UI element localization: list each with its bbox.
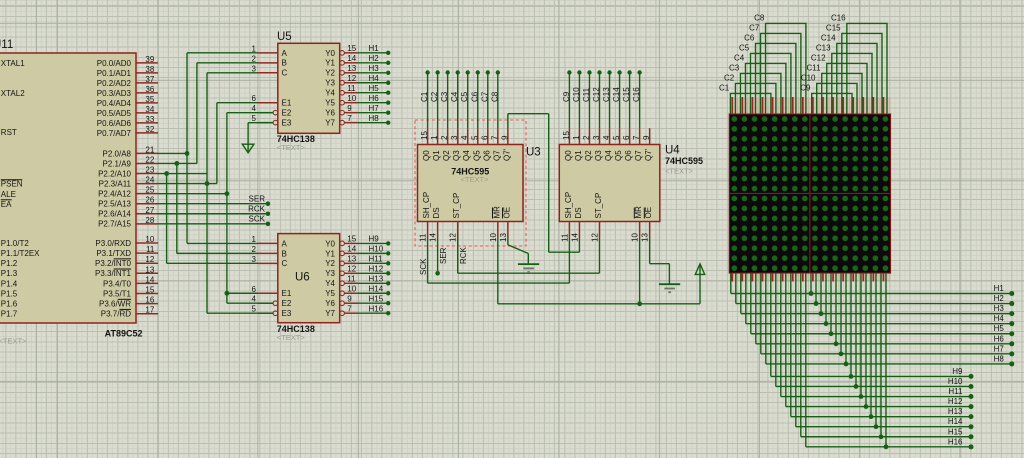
svg-text:15: 15 <box>347 235 356 244</box>
svg-text:A: A <box>282 239 288 248</box>
svg-text:H11: H11 <box>369 255 384 264</box>
U6 output pin Y0 (pin 15) and net H9 wire <box>325 235 390 249</box>
U5 output pin Y7 (pin 7) and net H8 wire <box>325 114 390 128</box>
svg-text:SCK: SCK <box>249 215 266 224</box>
svg-text:C5: C5 <box>739 43 750 52</box>
ground symbol below U4 (bar style) <box>659 284 680 292</box>
svg-text:H16: H16 <box>948 437 963 446</box>
net C15 column wire to matrix <box>826 23 882 114</box>
svg-text:12: 12 <box>145 255 154 264</box>
svg-text:RCK: RCK <box>248 205 266 214</box>
U6 property text <box>277 333 306 342</box>
U3 output pin Q1 (pin 1) top stub <box>430 128 441 161</box>
svg-text:C14: C14 <box>612 87 621 102</box>
net P2.4 wire to U5.E2, U6.E1 and U6.E2 with junctions <box>158 113 273 304</box>
svg-text:28: 28 <box>145 216 154 225</box>
net SCK wire U3.SH_CP to U4.SH_CP with label <box>419 238 570 284</box>
svg-text:15: 15 <box>420 131 429 140</box>
U3 output pin Q0 (pin 15) top stub <box>420 128 431 161</box>
svg-text:U4: U4 <box>665 145 680 157</box>
svg-text:H13: H13 <box>369 275 384 284</box>
svg-text:P1.0/T2: P1.0/T2 <box>1 239 30 248</box>
svg-text:12: 12 <box>347 265 356 274</box>
svg-text:XTAL2: XTAL2 <box>1 89 25 98</box>
svg-text:EA: EA <box>1 200 12 209</box>
svg-text:9: 9 <box>642 135 651 140</box>
U4 input pin SH_CP (pin 11) bottom stub <box>560 192 573 242</box>
U11 left pin name P1.0/T2 <box>1 239 30 248</box>
U11 left pin name ALE <box>1 190 16 199</box>
svg-text:C15: C15 <box>826 23 841 32</box>
U11 left pin name XTAL1 <box>1 59 25 68</box>
U11 value label AT89C52 <box>105 329 143 339</box>
svg-text:P0.5/AD5: P0.5/AD5 <box>97 109 132 118</box>
svg-text:14: 14 <box>145 275 154 284</box>
ground symbol below U5 (arrow style) <box>242 144 254 153</box>
svg-text:34: 34 <box>145 105 154 114</box>
svg-text:Q5: Q5 <box>472 150 481 161</box>
svg-text:U6: U6 <box>295 272 310 284</box>
svg-text:P0.1/AD1: P0.1/AD1 <box>97 69 132 78</box>
svg-text:Y3: Y3 <box>325 269 335 278</box>
U11 pin P2.7/A15 (pin 28) stub <box>98 216 158 229</box>
svg-text:H5: H5 <box>369 84 380 93</box>
net C16 column wire to matrix <box>831 13 887 114</box>
svg-text:Y6: Y6 <box>325 299 335 308</box>
svg-text:37: 37 <box>145 75 154 84</box>
svg-text:11: 11 <box>419 233 428 242</box>
svg-text:P0.4/AD4: P0.4/AD4 <box>97 99 132 108</box>
U11 pin P0.0/AD0 (pin 39) stub <box>97 55 158 68</box>
svg-text:PSEN: PSEN <box>1 180 23 189</box>
U11 pin P2.6/A14 (pin 27) stub <box>98 206 158 219</box>
net C2 wire from U3 Q1 <box>430 70 440 128</box>
svg-text:C15: C15 <box>622 87 631 102</box>
svg-text:11: 11 <box>560 233 569 242</box>
svg-text:11: 11 <box>146 245 155 254</box>
U6 output pin Y7 (pin 7) and net H16 wire <box>325 304 390 318</box>
svg-text:H3: H3 <box>994 304 1005 313</box>
U6 output pin Y6 (pin 9) and net H15 wire <box>325 295 390 309</box>
U3 output pin Q7 (pin 7) top stub <box>490 128 501 161</box>
svg-text:P2.4/A12: P2.4/A12 <box>98 190 131 199</box>
svg-text:3: 3 <box>450 135 459 140</box>
svg-text:12: 12 <box>449 233 458 242</box>
svg-text:1: 1 <box>572 135 581 140</box>
net H15 row wire from matrix with junction <box>801 273 974 439</box>
U5 enable pin E1 (pin 6) <box>252 94 292 107</box>
svg-text:B: B <box>282 249 287 258</box>
U11 property text <box>0 336 27 345</box>
svg-text:P0.2/AD2: P0.2/AD2 <box>97 79 132 88</box>
svg-text:E1: E1 <box>282 289 292 298</box>
svg-text:H7: H7 <box>994 344 1005 353</box>
net H3 row wire from matrix with junction <box>741 273 1015 316</box>
U6 value label 74HC138 <box>277 324 315 334</box>
svg-text:Y1: Y1 <box>325 59 335 68</box>
svg-text:Q7': Q7' <box>502 148 511 161</box>
svg-text:Q3: Q3 <box>452 150 461 161</box>
svg-text:H12: H12 <box>948 397 963 406</box>
svg-text:Q2: Q2 <box>584 150 593 161</box>
U11 pin P2.5/A13 (pin 26) stub <box>98 196 158 209</box>
svg-text:MR: MR <box>492 206 501 219</box>
svg-text:4: 4 <box>252 104 257 113</box>
svg-text:H1: H1 <box>994 284 1005 293</box>
svg-text:Y4: Y4 <box>325 279 335 288</box>
svg-text:14: 14 <box>570 233 579 242</box>
U4 input pin OE (pin 13) bottom stub <box>641 207 654 242</box>
svg-text:23: 23 <box>145 166 154 175</box>
svg-text:H1: H1 <box>369 44 380 53</box>
net C14 wire from U4 Q5 <box>612 70 622 128</box>
U6 output pin Y4 (pin 11) and net H13 wire <box>325 275 390 289</box>
svg-text:Y0: Y0 <box>325 239 335 248</box>
svg-text:DS: DS <box>432 207 441 218</box>
LED matrix bottom pin stubs <box>732 273 883 281</box>
svg-text:Q1: Q1 <box>574 150 583 161</box>
svg-text:P0.0/AD0: P0.0/AD0 <box>97 59 132 68</box>
svg-text:2: 2 <box>252 245 257 254</box>
U5 enable pin E3 (pin 5, inverted) <box>252 114 292 127</box>
U4 output pin Q1 (pin 1) top stub <box>572 128 583 161</box>
svg-text:Y5: Y5 <box>325 99 335 108</box>
svg-text:C12: C12 <box>592 87 601 102</box>
svg-text:15: 15 <box>145 286 154 295</box>
net H14 row wire from matrix with junction <box>796 273 974 429</box>
U11 pin P3.1/TXD (pin 11) stub <box>96 245 158 258</box>
net label RCK wire from U11 P2.6 <box>158 205 270 216</box>
svg-text:C1: C1 <box>420 91 429 102</box>
U6 output pin Y5 (pin 10) and net H14 wire <box>325 285 390 299</box>
svg-text:9: 9 <box>347 104 352 113</box>
svg-text:9: 9 <box>500 135 509 140</box>
svg-text:22: 22 <box>145 155 154 164</box>
svg-text:ST_CP: ST_CP <box>594 193 603 219</box>
svg-text:P3.7/RD: P3.7/RD <box>101 310 131 319</box>
U4 property text <box>665 166 694 175</box>
svg-text:2: 2 <box>440 135 449 140</box>
svg-text:P2.7/A15: P2.7/A15 <box>98 220 131 229</box>
svg-text:SH_CP: SH_CP <box>422 192 431 219</box>
svg-text:P2.2/A10: P2.2/A10 <box>98 169 131 178</box>
svg-text:C2: C2 <box>430 91 439 102</box>
svg-text:C6: C6 <box>744 33 755 42</box>
svg-text:RCK: RCK <box>459 246 468 264</box>
svg-text:P3.0/RXD: P3.0/RXD <box>95 239 131 248</box>
net C3 wire from U3 Q2 <box>440 70 450 128</box>
svg-text:RST: RST <box>1 128 17 137</box>
svg-text:1: 1 <box>252 235 257 244</box>
net H12 row wire from matrix with junction <box>786 273 974 409</box>
svg-text:38: 38 <box>145 65 154 74</box>
svg-text:12: 12 <box>347 74 356 83</box>
svg-text:<TEXT>: <TEXT> <box>665 166 694 175</box>
svg-text:E2: E2 <box>282 299 292 308</box>
U11 pin P0.3/AD3 (pin 36) stub <box>97 85 158 98</box>
svg-text:P3.5/T1: P3.5/T1 <box>103 289 132 298</box>
U11 left pin name PSEN (overlined) <box>1 180 23 189</box>
svg-text:H14: H14 <box>948 417 963 426</box>
svg-text:6: 6 <box>252 94 257 103</box>
svg-text:P0.6/AD6: P0.6/AD6 <box>97 119 132 128</box>
net H8 row wire from matrix with junction <box>766 273 1015 366</box>
U3 output pin Q2 (pin 2) top stub <box>440 128 451 161</box>
net P2.3 wire to U5.E1 and U6.E3 with junction <box>158 103 273 313</box>
svg-text:4: 4 <box>460 135 469 140</box>
U3 input pin MR (pin 10) bottom stub <box>489 206 502 242</box>
U5 output pin Y2 (pin 13) and net H3 wire <box>325 64 390 78</box>
U4 output pin Q4 (pin 4) top stub <box>602 128 613 161</box>
svg-text:36: 36 <box>145 85 154 94</box>
U4 input pin DS (pin 14) bottom stub <box>570 207 583 242</box>
svg-text:SCK: SCK <box>419 258 428 275</box>
svg-text:6: 6 <box>252 285 257 294</box>
svg-text:7: 7 <box>347 114 352 123</box>
svg-text:5: 5 <box>612 135 621 140</box>
U3 output pin Q7' (pin 9) top stub <box>500 128 511 161</box>
svg-text:H9: H9 <box>369 235 380 244</box>
U4 input pin MR (pin 10) bottom stub <box>631 206 644 242</box>
svg-text:E2: E2 <box>282 109 292 118</box>
U11 left pin name EA (overlined) <box>1 200 12 209</box>
svg-text:C7: C7 <box>749 23 760 32</box>
svg-text:5: 5 <box>252 305 257 314</box>
svg-text:Q7: Q7 <box>492 150 501 161</box>
svg-text:C2: C2 <box>724 73 735 82</box>
svg-text:6: 6 <box>480 135 489 140</box>
U5 enable pin E2 (pin 4, inverted) <box>252 104 292 117</box>
U6 enable pin E2 (pin 4, inverted) <box>252 295 292 308</box>
svg-text:Q6: Q6 <box>482 150 491 161</box>
svg-text:OE: OE <box>502 207 511 219</box>
svg-text:Y0: Y0 <box>325 49 335 58</box>
svg-text:Y2: Y2 <box>325 69 335 78</box>
svg-text:C11: C11 <box>806 63 821 72</box>
svg-text:Y3: Y3 <box>325 79 335 88</box>
U6 output pin Y3 (pin 12) and net H12 wire <box>325 265 390 279</box>
svg-text:C3: C3 <box>440 91 449 102</box>
svg-text:C6: C6 <box>470 91 479 102</box>
svg-text:2: 2 <box>252 54 257 63</box>
svg-text:Y4: Y4 <box>325 89 335 98</box>
svg-text:U3: U3 <box>526 146 541 158</box>
U4 output pin Q0 (pin 15) top stub <box>562 128 573 161</box>
svg-text:26: 26 <box>145 196 154 205</box>
svg-text:P2.5/A13: P2.5/A13 <box>98 200 131 209</box>
svg-text:DS: DS <box>574 207 583 218</box>
svg-text:AT89C52: AT89C52 <box>105 329 143 339</box>
svg-text:U11: U11 <box>0 39 13 51</box>
U11 left pin name RST <box>1 128 17 137</box>
U11 pin P3.2/INT0 (pin 12) stub <box>95 255 158 268</box>
svg-text:C5: C5 <box>460 91 469 102</box>
svg-text:H5: H5 <box>994 324 1005 333</box>
U6 output pin Y1 (pin 14) and net H10 wire <box>325 245 390 259</box>
svg-text:Q4: Q4 <box>604 150 613 161</box>
U6 input pin A (pin 1) <box>252 235 288 248</box>
svg-text:H8: H8 <box>994 354 1005 363</box>
svg-text:SER: SER <box>249 195 266 204</box>
svg-text:4: 4 <box>602 135 611 140</box>
svg-text:5: 5 <box>470 135 479 140</box>
svg-text:12: 12 <box>590 233 599 242</box>
svg-text:H6: H6 <box>369 94 380 103</box>
svg-text:P1.5: P1.5 <box>1 289 18 298</box>
svg-text:P3.6/WR: P3.6/WR <box>99 300 131 309</box>
svg-text:H13: H13 <box>948 407 963 416</box>
net C2 column wire to matrix <box>724 73 776 114</box>
U3 output pin Q3 (pin 3) top stub <box>450 128 461 161</box>
U11 pin P0.7/AD7 (pin 32) stub <box>97 125 158 138</box>
decoder U6 74HC138 body <box>278 234 340 323</box>
svg-text:<TEXT>: <TEXT> <box>461 175 490 184</box>
net C6 wire from U3 Q5 <box>470 70 480 128</box>
svg-text:C8: C8 <box>754 13 765 22</box>
svg-text:P0.3/AD3: P0.3/AD3 <box>97 89 132 98</box>
svg-text:H9: H9 <box>952 367 963 376</box>
shift register U4 74HC595 body <box>559 145 660 222</box>
svg-text:10: 10 <box>347 94 356 103</box>
svg-text:P1.4: P1.4 <box>1 279 18 288</box>
net H1 row wire from matrix with junction <box>731 273 1015 296</box>
svg-text:P2.6/A14: P2.6/A14 <box>98 210 131 219</box>
U5 value label 74HC138 <box>277 134 315 144</box>
svg-text:2: 2 <box>582 135 591 140</box>
U4 output pin Q3 (pin 3) top stub <box>592 128 603 161</box>
U3 input pin SH_CP (pin 11) bottom stub <box>419 192 432 242</box>
U5 output pin Y5 (pin 10) and net H6 wire <box>325 94 390 108</box>
U11 left pin name P1.3 <box>1 269 18 278</box>
U11 pin P0.5/AD5 (pin 34) stub <box>97 105 158 118</box>
svg-text:P2.1/A9: P2.1/A9 <box>103 159 132 168</box>
svg-text:17: 17 <box>145 306 154 315</box>
LED matrix pin strip shading <box>729 98 890 282</box>
U4 output pin Q5 (pin 5) top stub <box>612 128 623 161</box>
net C10 column wire to matrix <box>801 73 857 114</box>
svg-text:Q3: Q3 <box>594 150 603 161</box>
U5 output pin Y6 (pin 9) and net H7 wire <box>325 104 390 118</box>
svg-text:14: 14 <box>429 233 438 242</box>
U11 pin P3.6/WR (pin 16) stub <box>99 296 158 309</box>
svg-text:24: 24 <box>145 176 154 185</box>
svg-text:3: 3 <box>252 64 257 73</box>
U5 input pin B (pin 2) <box>252 54 287 67</box>
svg-text:7: 7 <box>347 304 352 313</box>
svg-text:14: 14 <box>347 54 356 63</box>
svg-text:H15: H15 <box>369 295 384 304</box>
U5 input pin A (pin 1) <box>252 44 288 57</box>
svg-text:H3: H3 <box>369 64 380 73</box>
svg-text:XTAL1: XTAL1 <box>1 59 25 68</box>
svg-text:P2.0/A8: P2.0/A8 <box>103 149 132 158</box>
U11 left pin name P1.2 <box>1 259 18 268</box>
svg-text:10: 10 <box>631 233 640 242</box>
svg-text:3: 3 <box>252 255 257 264</box>
svg-text:C7: C7 <box>480 91 489 102</box>
svg-text:MR: MR <box>634 206 643 219</box>
svg-text:C4: C4 <box>450 91 459 102</box>
net label SCK wire from U11 P2.7 <box>158 215 270 226</box>
svg-text:C9: C9 <box>800 83 811 92</box>
svg-text:C: C <box>282 69 288 78</box>
svg-text:C10: C10 <box>572 87 581 102</box>
svg-text:10: 10 <box>145 235 154 244</box>
svg-text:H6: H6 <box>994 334 1005 343</box>
U3 output pin Q5 (pin 5) top stub <box>470 128 481 161</box>
svg-text:H2: H2 <box>369 54 380 63</box>
U11 pin P0.6/AD6 (pin 33) stub <box>97 115 158 128</box>
svg-text:E3: E3 <box>282 119 292 128</box>
svg-text:74HC595: 74HC595 <box>665 156 703 166</box>
svg-text:P1.6: P1.6 <box>1 300 18 309</box>
U6 output pin Y2 (pin 13) and net H11 wire <box>325 255 390 269</box>
svg-text:<TEXT>: <TEXT> <box>277 333 306 342</box>
svg-text:C: C <box>282 259 288 268</box>
U3 value label 74HC595 <box>451 166 489 176</box>
svg-text:21: 21 <box>145 145 154 154</box>
svg-text:P1.7: P1.7 <box>1 310 18 319</box>
svg-text:13: 13 <box>347 255 356 264</box>
U11 left pin name P1.7 <box>1 310 18 319</box>
net RCK wire U3.ST_CP to U4.ST_CP with label <box>458 238 600 274</box>
U11 pin P2.4/A12 (pin 25) stub <box>98 186 158 199</box>
svg-text:25: 25 <box>145 186 154 195</box>
decoder U5 74HC138 body <box>278 43 340 133</box>
svg-text:H12: H12 <box>369 265 384 274</box>
U11 pin P3.3/INT1 (pin 13) stub <box>95 265 158 278</box>
wire U3.Q7' to U4.DS (cascade) <box>508 114 580 253</box>
svg-text:13: 13 <box>499 233 508 242</box>
net C8 wire from U3 Q7 <box>490 70 500 128</box>
svg-text:39: 39 <box>145 55 154 64</box>
net P2.0 wire to U5.A and U6.A with junction <box>158 53 258 244</box>
svg-text:H7: H7 <box>369 104 380 113</box>
net C13 column wire to matrix <box>816 43 872 114</box>
net H5 row wire from matrix with junction <box>751 273 1015 336</box>
svg-text:H11: H11 <box>948 387 963 396</box>
net H7 row wire from matrix with junction <box>761 273 1015 356</box>
svg-text:H4: H4 <box>369 74 380 83</box>
net C7 wire from U3 Q6 <box>480 70 490 128</box>
U11 left pin name P1.4 <box>1 279 18 288</box>
svg-text:14: 14 <box>347 245 356 254</box>
svg-text:7: 7 <box>490 135 499 140</box>
ground symbol below U3 (bar style) <box>518 264 539 272</box>
net C4 column wire to matrix <box>734 53 786 114</box>
svg-text:P3.3/INT1: P3.3/INT1 <box>95 269 132 278</box>
svg-text:C14: C14 <box>821 33 836 42</box>
svg-text:C9: C9 <box>562 91 571 102</box>
U11 pin P3.7/RD (pin 17) stub <box>101 306 158 319</box>
svg-text:Y1: Y1 <box>325 249 335 258</box>
net C15 wire from U4 Q6 <box>622 70 632 128</box>
U11 pin P0.4/AD4 (pin 35) stub <box>97 95 158 108</box>
U11 reference label <box>0 39 13 51</box>
svg-text:5: 5 <box>252 114 257 123</box>
svg-text:H16: H16 <box>369 304 384 313</box>
net C5 wire from U3 Q4 <box>460 70 470 128</box>
net C1 column wire to matrix <box>719 83 771 114</box>
U11 pin P0.2/AD2 (pin 37) stub <box>97 75 158 88</box>
U4 output pin Q2 (pin 2) top stub <box>582 128 593 161</box>
net H16 row wire from matrix with junction <box>806 273 974 449</box>
svg-text:C13: C13 <box>602 87 611 102</box>
net C16 wire from U4 Q7 <box>632 70 642 128</box>
svg-text:SH_CP: SH_CP <box>564 192 573 219</box>
net C8 column wire to matrix <box>754 13 806 114</box>
U3 input pin OE (pin 13) bottom stub <box>499 207 512 242</box>
